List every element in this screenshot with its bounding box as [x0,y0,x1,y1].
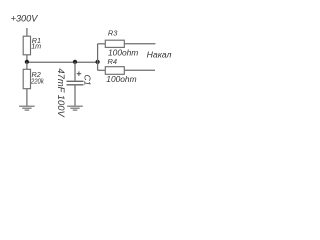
resistor R2 body [23,69,30,88]
wire to R4 left [98,69,106,71]
wire R1 bottom to bus [26,55,28,62]
resistor R1 body [23,36,30,55]
capacitor C1 bottom plate [67,84,84,86]
svg-text:1m: 1m [31,42,41,51]
junction node to R3/R4 branch [95,60,99,64]
wire from +300V to R1 top [26,28,28,36]
wire R4 right [124,69,155,71]
svg-text:C1: C1 [82,75,92,86]
wire R2 bottom to ground [26,89,28,106]
capacitor C1 top plate [67,80,84,82]
svg-text:Накал: Накал [147,49,172,59]
wire C1 bottom to ground [74,85,76,106]
svg-text:100ohm: 100ohm [106,74,136,84]
resistor R3 body [105,40,124,47]
junction node at R1/R2 [25,60,29,64]
wire to R3 left [98,43,106,45]
ground under C1 [67,106,83,110]
wire vertical branch riser [97,44,99,71]
svg-text:+300V: +300V [11,14,39,25]
svg-text:47mF 100V: 47mF 100V [56,68,67,117]
junction node at C1 top [73,60,77,64]
svg-text:R3: R3 [108,29,118,38]
ground under R2 [19,106,35,110]
wire R3 right [124,43,155,45]
polarity plus sign of C1 [77,71,82,76]
wire bus to R2 top [26,62,28,69]
resistor R4 body [105,67,124,75]
wire main bus [27,61,98,63]
svg-text:R4: R4 [108,57,117,66]
wire bus to C1 [74,62,76,80]
svg-text:220k: 220k [30,76,44,85]
